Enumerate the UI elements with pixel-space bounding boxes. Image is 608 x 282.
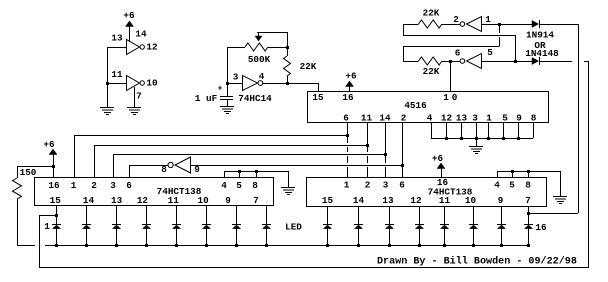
wire Q1 vertical bbox=[347, 122, 349, 177]
LED D2 bbox=[82, 225, 91, 246]
pin label U2-out-12 bbox=[137, 195, 149, 206]
wire stub 4516 pin x503 bbox=[503, 122, 505, 138]
pin label 4516-9 bbox=[516, 113, 522, 124]
svg-text:6: 6 bbox=[399, 179, 405, 190]
pin label 8 bbox=[161, 164, 167, 175]
LED D15 bbox=[497, 225, 506, 246]
svg-text:8: 8 bbox=[252, 180, 258, 191]
wire pin 15 clock bbox=[318, 83, 320, 91]
junction U2 pin8 bbox=[255, 170, 258, 173]
svg-text:22K: 22K bbox=[300, 61, 317, 72]
svg-text:22K: 22K bbox=[423, 66, 440, 77]
wire U2 LED stub 2 bbox=[86, 205, 88, 224]
wire input pin 11 bbox=[107, 83, 127, 85]
svg-text:3: 3 bbox=[233, 71, 239, 82]
pin label U2-4 bbox=[221, 180, 227, 191]
junction LED bus 10 bbox=[357, 244, 360, 247]
wire cross lower-left bbox=[403, 24, 516, 36]
wire Q2 horizontal bbox=[94, 145, 367, 177]
junction Q4 bbox=[401, 164, 404, 167]
wire osc top bbox=[257, 32, 287, 34]
pin label U2-out-7 bbox=[253, 195, 259, 206]
IC 4516 body bbox=[308, 92, 549, 123]
svg-text:2: 2 bbox=[91, 180, 97, 191]
wire U2 LED stub 4 bbox=[146, 205, 148, 224]
wire U2 pin15 stub bbox=[56, 205, 58, 224]
pin label 4516-2 bbox=[401, 113, 407, 124]
wire U3 pin7 stub bbox=[528, 206, 530, 224]
pin label 10 bbox=[146, 77, 158, 88]
svg-text:74HC14: 74HC14 bbox=[238, 93, 272, 104]
pin label U2-5 bbox=[236, 180, 242, 191]
junction LED bus 14 bbox=[472, 244, 475, 247]
svg-text:1N4148: 1N4148 bbox=[525, 48, 559, 59]
svg-text:4: 4 bbox=[259, 71, 265, 82]
pin label 16 bbox=[342, 92, 354, 103]
wire right rail v2 bbox=[588, 61, 590, 268]
pin label U3-4 bbox=[494, 179, 500, 190]
svg-text:150: 150 bbox=[20, 167, 37, 178]
label 1N914 bbox=[526, 29, 554, 40]
wire U2 LED stub 6 bbox=[206, 205, 208, 224]
capacitor 1uF plus bbox=[218, 85, 223, 94]
svg-text:6: 6 bbox=[126, 180, 132, 191]
svg-text:1: 1 bbox=[443, 92, 449, 103]
resistor 500K bbox=[227, 43, 287, 51]
svg-text:10: 10 bbox=[146, 77, 158, 88]
svg-text:8: 8 bbox=[525, 179, 531, 190]
wire diode1 to right rail bbox=[539, 24, 578, 26]
wire cross to inv1 input bbox=[499, 24, 501, 46]
junction inv2 input bbox=[514, 60, 517, 63]
ground U2 enable bbox=[281, 188, 295, 195]
pin label U3-1 bbox=[344, 179, 350, 190]
pin label 4516-11 bbox=[361, 113, 373, 124]
ground capacitor bbox=[220, 107, 234, 114]
junction bus x476 bbox=[475, 137, 478, 140]
svg-text:1: 1 bbox=[344, 179, 350, 190]
wire U2 pins 4-5-8 tie bbox=[224, 171, 288, 177]
pin label 11 bbox=[111, 69, 123, 80]
LED D6 bbox=[202, 225, 211, 246]
pin label U3-6 bbox=[399, 179, 405, 190]
LED D11 bbox=[385, 225, 394, 246]
label 150 bbox=[20, 167, 37, 178]
label 4516 bbox=[404, 100, 427, 111]
svg-text:12: 12 bbox=[410, 195, 422, 206]
pin label U2-out-13 bbox=[111, 195, 123, 206]
junction Q3 bbox=[384, 153, 387, 156]
wire stub 4516 pin x461 bbox=[461, 122, 463, 138]
ground tied inputs bbox=[100, 108, 114, 115]
svg-text:15: 15 bbox=[322, 195, 334, 206]
svg-text:9: 9 bbox=[225, 195, 231, 206]
wire ground bus 4516 bbox=[431, 138, 533, 140]
junction LED bus 12 bbox=[418, 244, 421, 247]
junction LED bus 8 bbox=[265, 244, 268, 247]
pin label U3-out-15 bbox=[322, 195, 334, 206]
junction LED bus 13 bbox=[443, 244, 446, 247]
svg-text:+: + bbox=[218, 85, 223, 94]
pin label 4516-3 bbox=[472, 113, 478, 124]
pin label U2-out-11 bbox=[168, 195, 180, 206]
svg-text:7: 7 bbox=[253, 195, 259, 206]
wire stub 4516 pin x476 bbox=[476, 122, 478, 138]
LED D14 bbox=[469, 225, 478, 246]
label U3 74HCT138 bbox=[428, 186, 473, 197]
svg-text:12: 12 bbox=[146, 41, 158, 52]
svg-text:6: 6 bbox=[455, 47, 461, 58]
pin label U3-out-13 bbox=[382, 195, 394, 206]
ground pin 7 bbox=[127, 108, 141, 115]
svg-text:14: 14 bbox=[83, 195, 95, 206]
svg-text:3: 3 bbox=[383, 179, 389, 190]
pin label U2-out-10 bbox=[198, 195, 210, 206]
power +6 top-left bbox=[123, 10, 135, 27]
IC U2 74HCT138 body bbox=[35, 178, 274, 206]
svg-text:1N914: 1N914 bbox=[526, 29, 554, 40]
op-amp U1A inverter 13-12 bbox=[127, 40, 145, 55]
pin label U3-2 bbox=[365, 179, 371, 190]
ground U3 enable stem bbox=[560, 171, 562, 196]
pin label U3-16 bbox=[437, 177, 449, 188]
svg-text:12: 12 bbox=[137, 195, 149, 206]
pin label 4516-8 bbox=[531, 113, 537, 124]
svg-text:11: 11 bbox=[439, 195, 451, 206]
op-amp U1D inverter 9-8 bbox=[168, 157, 191, 173]
ground U3 enable bbox=[553, 197, 567, 204]
pin label 2 bbox=[453, 14, 459, 25]
pin label U2-1 bbox=[71, 180, 77, 191]
wire U3 LED stub 10 bbox=[358, 206, 360, 224]
diode D17 1N914 bbox=[532, 20, 540, 28]
wire stub 4516 pin x431 bbox=[431, 122, 433, 138]
junction LED bus 3 bbox=[115, 244, 118, 247]
svg-text:1 uF: 1 uF bbox=[195, 93, 218, 104]
wire inv1 input bbox=[481, 24, 532, 26]
wire input pin 13 bbox=[107, 47, 127, 49]
junction bus x503 bbox=[502, 137, 505, 140]
junction pin16 U2 bbox=[52, 165, 55, 168]
pin label 4 bbox=[259, 71, 265, 82]
svg-text:4: 4 bbox=[221, 180, 227, 191]
junction LED bus 9 bbox=[326, 244, 329, 247]
junction LED bus 7 bbox=[235, 244, 238, 247]
wire inverter out to U2 pin6 bbox=[129, 165, 168, 177]
svg-text:10: 10 bbox=[465, 195, 477, 206]
op-amp U1C oscillator 3-4 bbox=[243, 76, 263, 91]
label title bbox=[377, 256, 577, 268]
pin label U3-out-9 bbox=[498, 195, 504, 206]
node junction pin 11 bbox=[106, 82, 109, 85]
label LED 1 bbox=[44, 221, 50, 232]
power +6 U2 bbox=[43, 139, 57, 155]
pin label U3-3 bbox=[383, 179, 389, 190]
diode D18 1N914 bbox=[532, 57, 540, 65]
wire feedback right bbox=[528, 213, 578, 215]
pin label U3-out-7 bbox=[525, 195, 531, 206]
junction LED bus 1 bbox=[55, 244, 58, 247]
label 1uF bbox=[195, 93, 218, 104]
LED D7 bbox=[232, 225, 241, 246]
wire osc output bbox=[263, 83, 319, 85]
pin label 13 bbox=[111, 32, 123, 43]
label OR bbox=[534, 40, 546, 51]
wire inv2 input bbox=[481, 61, 532, 63]
LED D12 bbox=[415, 225, 424, 246]
pin label U2-6 bbox=[126, 180, 132, 191]
svg-text:22K: 22K bbox=[423, 7, 440, 18]
wire stub 4516 pin x533 bbox=[533, 122, 535, 138]
pin label 7 bbox=[136, 90, 142, 101]
wire U3 LED stub 15 bbox=[501, 206, 503, 224]
wire diode2 out bbox=[539, 61, 588, 63]
label 74HC14 bbox=[238, 93, 272, 104]
potentiometer wiper arrow bbox=[255, 32, 262, 41]
junction to 4516 pin10 bbox=[449, 60, 452, 63]
LED D13 bbox=[440, 225, 449, 246]
op-amp U1E inverter 2-1 bbox=[460, 17, 481, 32]
svg-text:14: 14 bbox=[135, 28, 147, 39]
label LED 16 bbox=[535, 222, 547, 233]
junction feedback left bbox=[55, 214, 58, 217]
LED D3 bbox=[112, 225, 121, 246]
junction LED bus 11 bbox=[388, 244, 391, 247]
wire stub 4516 pin x488 bbox=[488, 122, 490, 138]
wire Q1 horizontal bbox=[74, 135, 347, 177]
svg-text:3: 3 bbox=[472, 113, 478, 124]
wire bottom return bbox=[39, 267, 588, 269]
LED D9 bbox=[323, 225, 332, 246]
junction LED bus 4 bbox=[145, 244, 148, 247]
svg-text:7: 7 bbox=[525, 195, 531, 206]
pin label U2-out-14 bbox=[83, 195, 95, 206]
pin label 4516-6 bbox=[343, 113, 349, 124]
pin label U3-out-12 bbox=[410, 195, 422, 206]
svg-text:LED: LED bbox=[285, 221, 302, 232]
pin label U2-out-9 bbox=[225, 195, 231, 206]
wire to resistor 150 bbox=[17, 166, 53, 168]
node osc input bbox=[226, 82, 229, 85]
svg-text:6: 6 bbox=[343, 113, 349, 124]
svg-text:11: 11 bbox=[168, 195, 180, 206]
pin label 12 bbox=[146, 41, 158, 52]
svg-text:+6: +6 bbox=[43, 139, 55, 150]
wire U3 LED stub 14 bbox=[473, 206, 475, 224]
svg-text:1: 1 bbox=[71, 180, 77, 191]
wire U3 LED stub 11 bbox=[389, 206, 391, 224]
wire to 4516 pin10 bbox=[450, 61, 452, 91]
svg-text:16: 16 bbox=[342, 92, 354, 103]
wire U3 LED stub 12 bbox=[419, 206, 421, 224]
resistor 22K lower bbox=[403, 57, 460, 65]
pin label U3-8 bbox=[525, 179, 531, 190]
svg-text:4: 4 bbox=[494, 179, 500, 190]
LED D4 bbox=[142, 225, 151, 246]
svg-text:15: 15 bbox=[312, 92, 324, 103]
svg-text:10: 10 bbox=[198, 195, 210, 206]
LED D8 bbox=[262, 225, 271, 246]
wire right rail v1 bbox=[578, 24, 580, 213]
pin label U3-5 bbox=[509, 179, 515, 190]
wire U2 LED stub 5 bbox=[176, 205, 178, 224]
svg-text:500K: 500K bbox=[248, 54, 271, 65]
svg-text:3: 3 bbox=[110, 180, 116, 191]
junction inv1 input bbox=[498, 23, 501, 26]
pin label 4516-5 bbox=[502, 113, 508, 124]
svg-text:2: 2 bbox=[365, 179, 371, 190]
svg-text:14: 14 bbox=[353, 195, 365, 206]
junction Q1 bbox=[346, 134, 349, 137]
wire pin16 U2 bbox=[53, 154, 55, 177]
wire U3 LED stub 9 bbox=[327, 206, 329, 224]
label LED text bbox=[285, 221, 302, 232]
pin label 15 bbox=[312, 92, 324, 103]
svg-text:Drawn By - Bill Bowden - 09/22: Drawn By - Bill Bowden - 09/22/98 bbox=[377, 256, 577, 268]
pin label U3-out-11 bbox=[439, 195, 451, 206]
wire tie inputs 13-11 bbox=[107, 47, 109, 107]
node 22K top bbox=[286, 46, 289, 49]
wire Q4 vertical bbox=[402, 122, 404, 177]
ground U2 enable stem bbox=[288, 171, 290, 187]
svg-text:16: 16 bbox=[535, 222, 547, 233]
svg-text:13: 13 bbox=[111, 195, 123, 206]
junction LED bus 15 bbox=[500, 244, 503, 247]
pin 7 ground stem bbox=[134, 87, 136, 107]
LED D10 bbox=[354, 225, 363, 246]
pin label 4516-12 bbox=[441, 113, 453, 124]
svg-text:5: 5 bbox=[509, 179, 515, 190]
junction LED bus 16 bbox=[527, 244, 530, 247]
svg-text:4516: 4516 bbox=[404, 100, 427, 111]
junction U2 pin5 bbox=[238, 170, 241, 173]
op-amp U1F inverter 6-5 bbox=[460, 54, 481, 69]
junction LED bus 5 bbox=[175, 244, 178, 247]
LED D1 bbox=[52, 225, 61, 246]
pin label 4516-14 bbox=[379, 113, 391, 124]
resistor 150 bbox=[13, 166, 22, 245]
ground 4516 bus bbox=[469, 147, 483, 154]
svg-text:9: 9 bbox=[516, 113, 522, 124]
node 22K bottom bbox=[286, 82, 289, 85]
label U2 74HCT138 bbox=[157, 186, 202, 197]
svg-text:5: 5 bbox=[487, 47, 493, 58]
wire U2 LED stub 3 bbox=[116, 205, 118, 224]
junction U3 pin5 bbox=[511, 170, 514, 173]
wire Q3 vertical bbox=[385, 122, 387, 177]
pin label 4516-1 bbox=[486, 113, 492, 124]
power +6 U3 bbox=[432, 153, 445, 177]
svg-text:7: 7 bbox=[136, 90, 142, 101]
wire LED anode bus bbox=[17, 245, 528, 247]
LED D5 bbox=[172, 225, 181, 246]
label 22K lower bbox=[423, 66, 440, 77]
pin label U3-out-14 bbox=[353, 195, 365, 206]
pin label 3 bbox=[233, 71, 239, 82]
pin label 5 bbox=[487, 47, 493, 58]
power +6 4516 bbox=[345, 70, 357, 91]
pin label U2-16 bbox=[48, 180, 60, 191]
svg-text:16: 16 bbox=[48, 180, 60, 191]
pin 14 power stem bbox=[129, 26, 131, 42]
label 500K bbox=[248, 54, 271, 65]
pin label 10 bbox=[443, 92, 458, 103]
wire U3 pins 4-5-8 tie bbox=[497, 171, 560, 177]
wire cross upper-right bbox=[403, 46, 500, 61]
svg-text:5: 5 bbox=[236, 180, 242, 191]
wire Q2 vertical bbox=[367, 122, 369, 177]
wire U2 LED stub 7 bbox=[236, 205, 238, 224]
wire stub 4516 pin x446 bbox=[446, 122, 448, 138]
pin label U3-out-10 bbox=[465, 195, 477, 206]
junction Q2 bbox=[366, 144, 369, 147]
junction LED bus 6 bbox=[205, 244, 208, 247]
label 1N4148 bbox=[525, 48, 559, 59]
svg-text:11: 11 bbox=[111, 69, 123, 80]
junction bus x518 bbox=[517, 137, 520, 140]
label 22K upper bbox=[423, 7, 440, 18]
svg-text:+6: +6 bbox=[345, 70, 357, 81]
label 22K osc bbox=[300, 61, 317, 72]
pin label 1 bbox=[485, 14, 491, 25]
svg-text:2: 2 bbox=[401, 113, 407, 124]
svg-text:13: 13 bbox=[111, 32, 123, 43]
capacitor 1uF bbox=[220, 97, 233, 107]
junction LED bus 2 bbox=[85, 244, 88, 247]
pin label 6 bbox=[455, 47, 461, 58]
pin label 4516-13 bbox=[456, 113, 468, 124]
wire Q4 to inverter input bbox=[190, 165, 403, 167]
ground 4516 bus stem bbox=[476, 138, 478, 146]
wire U2 LED stub 8 bbox=[266, 205, 268, 224]
svg-text:1: 1 bbox=[486, 113, 492, 124]
svg-text:74HCT138: 74HCT138 bbox=[157, 186, 202, 197]
pin label 14 bbox=[135, 28, 147, 39]
pin label U2-3 bbox=[110, 180, 116, 191]
svg-text:2: 2 bbox=[453, 14, 459, 25]
svg-text:1: 1 bbox=[44, 221, 50, 232]
pin label U2-out-15 bbox=[50, 195, 62, 206]
junction bus x461 bbox=[460, 137, 463, 140]
wire stub 4516 pin x518 bbox=[518, 122, 520, 138]
junction feedback right bbox=[527, 212, 530, 215]
wire Q3 horizontal bbox=[113, 154, 385, 177]
resistor 22K upper bbox=[403, 20, 460, 28]
svg-text:15: 15 bbox=[50, 195, 62, 206]
wire pot to node bbox=[287, 32, 289, 47]
wire feedback left bbox=[39, 215, 56, 267]
wire input to gate 3 bbox=[227, 83, 243, 85]
junction bus x446 bbox=[445, 137, 448, 140]
svg-text:9: 9 bbox=[498, 195, 504, 206]
LED D16 bbox=[524, 225, 533, 246]
wire U3 LED stub 13 bbox=[444, 206, 446, 224]
wire cross to inv2 input bbox=[515, 35, 517, 61]
svg-text:0: 0 bbox=[452, 92, 458, 103]
pin label 9 bbox=[194, 164, 200, 175]
junction U3 pin8 bbox=[527, 170, 530, 173]
resistor 22K osc bbox=[284, 47, 291, 83]
svg-text:9: 9 bbox=[194, 164, 200, 175]
svg-text:13: 13 bbox=[382, 195, 394, 206]
pin label U2-8 bbox=[252, 180, 258, 191]
wire osc input bbox=[227, 47, 229, 96]
svg-text:1: 1 bbox=[485, 14, 491, 25]
op-amp U1B inverter 11-10 bbox=[127, 76, 145, 91]
pin label 4516-4 bbox=[427, 113, 433, 124]
IC U3 74HCT138 body bbox=[307, 178, 547, 207]
svg-text:11: 11 bbox=[361, 113, 373, 124]
